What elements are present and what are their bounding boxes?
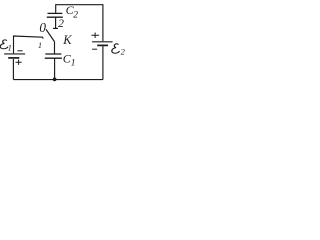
svg-text:0: 0 (39, 20, 46, 35)
svg-text:1: 1 (38, 41, 42, 50)
svg-text:1: 1 (71, 58, 76, 68)
svg-text:1: 1 (8, 42, 12, 52)
svg-text:2: 2 (58, 17, 64, 30)
svg-text:2: 2 (73, 10, 78, 20)
svg-text:2: 2 (121, 47, 126, 57)
svg-text:K: K (62, 33, 72, 47)
